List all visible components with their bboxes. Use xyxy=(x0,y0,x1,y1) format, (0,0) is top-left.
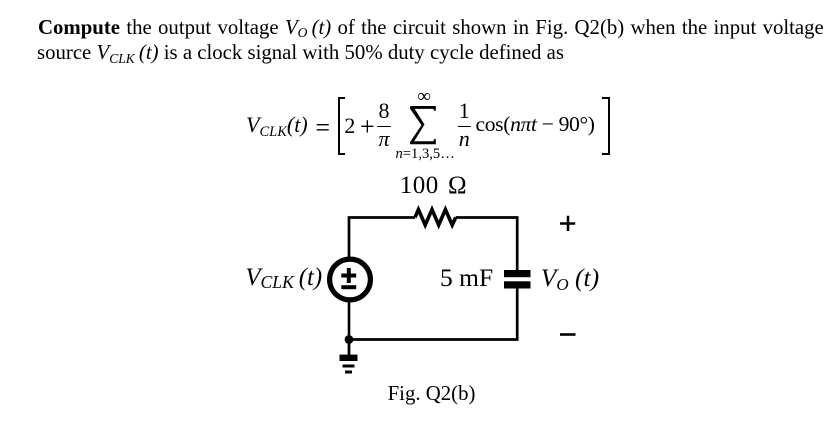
fraction 8 over pi : denominator pi xyxy=(377,128,391,150)
fraction 1 over n : denominator n xyxy=(458,128,471,150)
resistor R 100 ohm zigzag xyxy=(415,210,456,226)
equation right bracket xyxy=(602,97,610,156)
voltage source circle xyxy=(330,259,371,300)
equation term 2 xyxy=(344,115,355,137)
source plus sign xyxy=(341,268,356,283)
ground bar 2 xyxy=(343,365,355,368)
summation sigma xyxy=(410,106,436,145)
fraction 8 over pi : numerator xyxy=(377,100,391,122)
source minus sign xyxy=(341,285,356,289)
equation VCLK(t) lhs xyxy=(246,114,308,136)
equation equals sign xyxy=(315,115,330,141)
caption Fig. Q2(b) xyxy=(388,384,476,405)
capacitor C top plate xyxy=(504,270,531,277)
infinity above sigma xyxy=(412,87,436,106)
ground bar 3 xyxy=(345,371,352,374)
capacitor C bottom plate xyxy=(504,281,531,288)
paragraph line 1 xyxy=(38,18,824,39)
wire top-left from source top corner xyxy=(349,218,415,259)
fraction 8 over pi : bar xyxy=(377,126,391,128)
polarity plus sign top right xyxy=(560,216,575,231)
fraction 1 over n : bar xyxy=(458,126,471,128)
paragraph line 2 xyxy=(37,43,564,64)
label 100 ohm xyxy=(400,173,467,198)
ground bar 1 xyxy=(340,355,358,361)
label VCLK(t) source xyxy=(245,266,322,291)
ground stem xyxy=(348,340,351,356)
cos(n pi t - 90) xyxy=(476,114,595,136)
equation plus operator xyxy=(360,114,375,140)
fraction 1 over n : numerator xyxy=(458,100,471,122)
polarity minus sign bottom right xyxy=(560,333,576,336)
equation left bracket xyxy=(338,97,346,156)
wire source bottom xyxy=(348,301,351,340)
summation lower limit n=1,3,5... xyxy=(396,147,455,162)
label VO(t) output xyxy=(541,265,599,291)
wire top-right to capacitor xyxy=(456,218,517,271)
junction node dot xyxy=(345,335,354,344)
wire right-bottom from capacitor xyxy=(349,289,517,340)
label 5 mF xyxy=(440,265,493,291)
